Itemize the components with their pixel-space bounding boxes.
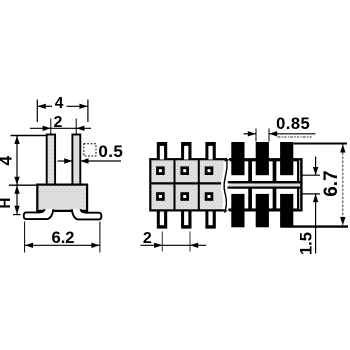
leader 0.5 left arrow: [58, 160, 73, 162]
cell box r1 col6: [275, 160, 298, 182]
cell box r2 col4: [227, 188, 250, 210]
ext line body-top left: [9, 184, 38, 186]
bottom lead col1: [157, 210, 167, 229]
seating line bottom right: [281, 225, 349, 227]
cell box r2 col6: [275, 188, 298, 210]
tick 0.85 right: [268, 129, 270, 142]
tick pin1 center: [50, 119, 52, 135]
ext line pin-top level: [11, 135, 47, 137]
break erase band: [224, 161, 227, 210]
ext line 6.2 left: [24, 222, 26, 253]
top lead col3: [205, 142, 215, 160]
centerline stub row2: [301, 193, 321, 195]
dim 0.85 right arrow with tail: [269, 133, 316, 135]
row1 boxes bottom border full width: [230, 181, 301, 183]
contact bar col6 lower: [280, 194, 293, 227]
cell col separator 1: [174, 159, 176, 210]
row separator: [150, 182, 226, 184]
dim line 6.2: [25, 244, 100, 246]
ext line H bottom: [13, 214, 21, 216]
cell col separator 2: [198, 159, 200, 210]
pin square r2c1: [156, 192, 165, 201]
dashed box 0.5: [84, 144, 96, 156]
right foot: [72, 209, 102, 219]
tick pin2 center: [75, 119, 77, 135]
bottom lead col3: [205, 210, 215, 229]
pin square r2c3: [205, 192, 214, 201]
dim line 2: [30, 127, 91, 129]
pin right: [72, 135, 80, 186]
top ext line right: [293, 143, 347, 145]
svg-text:4: 4: [0, 156, 16, 166]
contact bar col5 lower: [256, 194, 269, 227]
pin left: [47, 135, 55, 186]
body left portion: [150, 159, 226, 210]
svg-text:6.7: 6.7: [321, 170, 342, 196]
dim line H vertical: [16, 185, 18, 214]
svg-text:2: 2: [54, 114, 63, 131]
contact bar col6 upper: [280, 142, 293, 175]
centerline stub row1: [301, 174, 321, 176]
dim 0.85 left arrow: [244, 133, 257, 135]
body: [37, 185, 87, 211]
svg-text:2: 2: [143, 230, 152, 247]
dim line 2 bottom: [141, 244, 207, 246]
pin square r2c2: [180, 192, 189, 201]
contact bar col5 upper: [256, 142, 269, 175]
tick 0.85 left: [255, 129, 257, 142]
contact bar col4 upper: [231, 142, 244, 175]
top lead col2: [181, 142, 191, 160]
dim line 4 top: [37, 105, 52, 107]
svg-text:0.85: 0.85: [276, 115, 310, 133]
leader 0.5 right tail: [80, 160, 121, 162]
cell box r1 col5: [251, 160, 274, 182]
dim 1.5 lower segment: [315, 194, 317, 254]
pin square r1c3: [205, 166, 214, 175]
cell box r2 col5: [251, 188, 274, 210]
pin square r1c1: [156, 166, 165, 175]
left foot: [24, 209, 54, 219]
ext line body-left for 4: [36, 100, 38, 123]
svg-text:4: 4: [55, 95, 64, 112]
svg-text:0.5: 0.5: [98, 142, 123, 161]
row2 boxes top border full width: [230, 187, 301, 189]
dim line 4 vertical: [16, 136, 18, 186]
svg-text:H: H: [0, 198, 14, 209]
ext line 6.2 right: [99, 222, 101, 253]
bottom lead col2: [181, 210, 191, 229]
body right portion: [229, 158, 302, 211]
dim line 6.7: [342, 145, 344, 226]
break wavy line: [224, 158, 227, 213]
micro marks under tail: [278, 136, 313, 138]
ext line body-right for 4: [87, 100, 89, 123]
cell box r1 col4: [227, 160, 250, 182]
tick 2 left: [161, 232, 163, 252]
svg-text:1.5: 1.5: [298, 232, 316, 255]
svg-text:6.2: 6.2: [52, 229, 75, 247]
top lead col1: [157, 142, 167, 160]
tick 2 right: [189, 232, 191, 252]
dim 1.5 upper segment: [315, 157, 317, 176]
contact bar col4 lower: [231, 194, 244, 227]
pin square r1c2: [180, 166, 189, 175]
